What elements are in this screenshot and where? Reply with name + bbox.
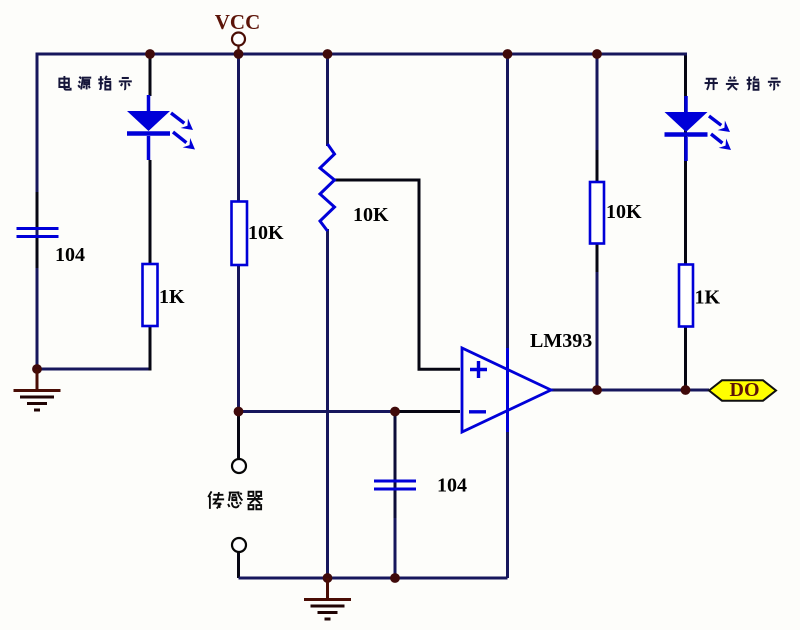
svg-text:104: 104 <box>437 475 467 497</box>
svg-text:VCC: VCC <box>215 10 261 34</box>
svg-text:10K: 10K <box>353 204 389 226</box>
svg-text:104: 104 <box>55 244 85 266</box>
svg-text:LM393: LM393 <box>530 330 592 352</box>
svg-text:1K: 1K <box>159 286 185 308</box>
svg-text:DO: DO <box>730 379 760 401</box>
svg-text:10K: 10K <box>606 201 642 223</box>
svg-text:1K: 1K <box>695 287 721 309</box>
svg-text:10K: 10K <box>248 222 284 244</box>
